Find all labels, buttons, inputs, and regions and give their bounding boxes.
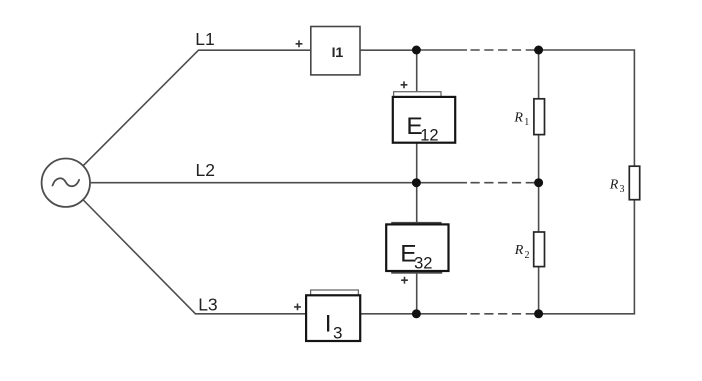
svg-text:3: 3: [333, 324, 342, 343]
wire L3 diagonal from source: [83, 200, 195, 314]
wire node C solid segment right: [416, 182, 467, 184]
wire R2 to node F: [538, 267, 540, 314]
plus polarity at I1: [296, 40, 303, 47]
svg-text:2: 2: [525, 250, 530, 261]
wire node B to resistor R1: [538, 50, 540, 99]
svg-text:R: R: [514, 243, 524, 258]
wire E12 bottom stem: [416, 143, 418, 183]
node E junction dot: [412, 309, 421, 318]
wire I3 to node E: [360, 313, 416, 315]
svg-text:12: 12: [420, 127, 438, 145]
svg-text:3: 3: [620, 184, 625, 195]
svg-text:L2: L2: [196, 160, 215, 180]
ammeter I3 top plate: [311, 290, 359, 295]
wire node E solid segment right: [416, 313, 467, 315]
plus polarity at E32: [401, 277, 408, 284]
node B junction dot: [534, 46, 543, 55]
voltmeter E12 top plate: [394, 92, 441, 97]
svg-text:L1: L1: [195, 29, 214, 49]
wire node A solid segment right: [416, 49, 467, 51]
wire E32 bottom stem: [416, 274, 418, 314]
wire dashed bottom row: [471, 313, 539, 315]
plus polarity at E12: [401, 81, 408, 88]
AC source sine symbol: [53, 178, 80, 186]
wire node D to resistor R2: [538, 183, 540, 232]
svg-text:R: R: [609, 177, 619, 192]
svg-text:I: I: [325, 311, 332, 338]
wire L1 horizontal to I1: [198, 49, 311, 51]
node F junction dot: [534, 309, 543, 318]
svg-text:L3: L3: [198, 294, 217, 314]
wire dashed top row: [471, 49, 539, 51]
AC source G1 circle: [42, 159, 90, 207]
ammeter I3 box: [306, 295, 360, 341]
node A junction dot: [412, 46, 421, 55]
wire E32 top stem: [416, 183, 418, 222]
wire E12 top stem: [416, 50, 418, 92]
plus polarity at I3: [294, 304, 301, 311]
voltmeter E32 box: [386, 224, 448, 271]
wire L1 diagonal from source: [83, 50, 198, 165]
node D junction dot: [534, 178, 543, 187]
voltmeter E32 bottom plate: [391, 272, 442, 274]
resistor R2 body: [534, 232, 545, 267]
ammeter I1 box: [311, 27, 360, 75]
resistor R3 body: [629, 166, 639, 200]
wire L3 horizontal to I3: [195, 313, 306, 315]
svg-text:I1: I1: [332, 44, 344, 60]
wire R1 to node D: [538, 135, 540, 183]
voltmeter E12 box: [393, 97, 455, 143]
svg-text:1: 1: [524, 117, 529, 128]
svg-text:32: 32: [414, 255, 432, 273]
svg-text:R: R: [513, 111, 523, 126]
wire node F to bottom-right corner: [539, 200, 635, 314]
voltmeter E32 top plate: [391, 222, 441, 225]
wire I1 to node A: [360, 49, 417, 51]
wire node B to top-right corner: [539, 50, 635, 166]
node C junction dot: [412, 178, 421, 187]
wire dashed middle row: [471, 182, 539, 184]
resistor R1 body: [534, 99, 545, 135]
wire L2 from source to node C: [90, 182, 416, 184]
